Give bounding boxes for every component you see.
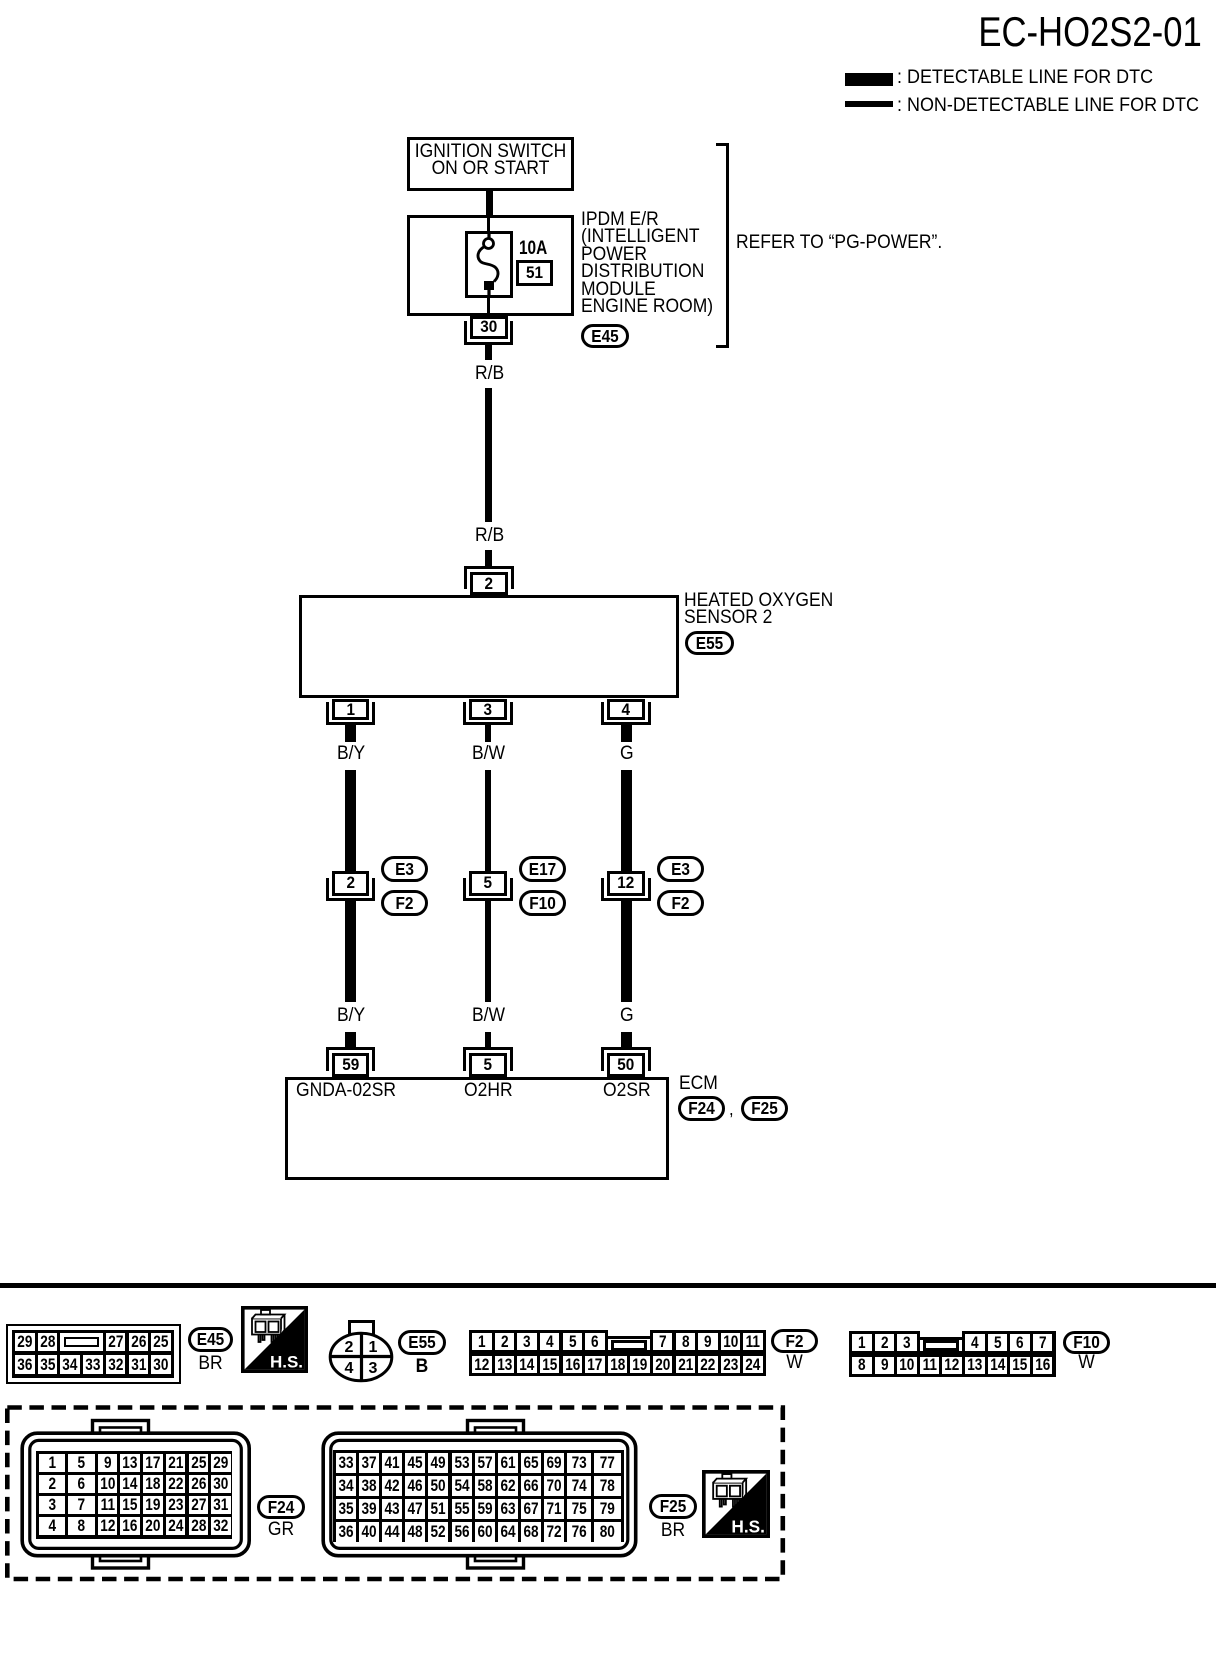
wire stub above pin 2 <box>485 550 492 567</box>
inline connector pin 12 box <box>607 871 645 896</box>
F2 cavity 2 <box>495 1333 515 1350</box>
connector oval F25 (bottom) <box>649 1494 697 1519</box>
F24 cavity 16 <box>120 1517 140 1535</box>
F25 cavity 72 <box>544 1522 564 1542</box>
F10 cavity 6 <box>1010 1334 1030 1351</box>
ECM pin 59 bracket <box>326 1047 376 1071</box>
F24 cavity 2 <box>39 1475 66 1493</box>
F25 cavity 67 <box>521 1499 541 1519</box>
connector F24 housing <box>18 1417 254 1573</box>
F10 key section <box>920 1330 962 1351</box>
E45 cavity 26 <box>129 1333 149 1352</box>
E45 cavity 30 <box>151 1355 171 1375</box>
wire stub below pin 3 <box>485 725 492 742</box>
F24 cavity 14 <box>120 1475 140 1493</box>
connector F10 face <box>849 1331 1056 1377</box>
F25 cavity 79 <box>594 1499 621 1519</box>
F25 cavity 44 <box>382 1522 402 1542</box>
F25 cavity 54 <box>452 1476 472 1496</box>
F25 cavity 41 <box>382 1453 402 1473</box>
E45 cavity 25 <box>151 1333 171 1352</box>
label heated oxygen sensor 2 <box>684 593 833 627</box>
F2 cavity 21 <box>676 1356 696 1373</box>
connector oval E55 (bottom) <box>398 1330 446 1355</box>
E45 cavity 31 <box>129 1355 149 1375</box>
connector oval E3 <box>657 856 704 882</box>
pin 1 box sensor <box>332 699 370 721</box>
fuse 10A box <box>465 231 513 298</box>
connector F25 housing <box>319 1417 643 1573</box>
F25 cavity 53 <box>452 1453 472 1473</box>
F24 cavity 5 <box>68 1454 95 1472</box>
wire column 5 lower <box>485 901 492 1002</box>
separator line <box>0 1283 1216 1288</box>
F25 cavity 39 <box>359 1499 379 1519</box>
pin 3 bracket <box>463 702 513 725</box>
F25 cavity 59 <box>475 1499 495 1519</box>
F25 cavity 68 <box>521 1522 541 1542</box>
ECM terminal name O2SR <box>603 1081 651 1102</box>
wire stub below pin 30 <box>485 345 492 360</box>
label W (F10) <box>1064 1353 1107 1374</box>
F25 cavity 42 <box>382 1476 402 1496</box>
connector oval E45 (bottom) <box>188 1327 233 1352</box>
F24 cavity 12 <box>98 1517 118 1535</box>
wire column 2 lower <box>345 901 356 1002</box>
F25 cavity 35 <box>336 1499 356 1519</box>
ECM pin 50 bracket <box>601 1047 651 1071</box>
F25 cavity 80 <box>594 1522 621 1542</box>
connector oval F10 <box>519 890 566 916</box>
F25 cavity 64 <box>498 1522 518 1542</box>
connector oval F24 (ECM) <box>678 1096 725 1121</box>
F25 cavity 71 <box>544 1499 564 1519</box>
connector oval F2 <box>657 890 704 916</box>
connector E55 face (round) <box>328 1318 394 1383</box>
svg-text:3: 3 <box>369 1360 378 1377</box>
F25 cavity 77 <box>594 1453 621 1473</box>
wire label B/Y <box>337 744 365 765</box>
svg-text:1: 1 <box>369 1339 378 1356</box>
F24 cavity 25 <box>189 1454 209 1472</box>
F10 cavity 14 <box>988 1357 1008 1374</box>
F25 cavity 52 <box>428 1522 448 1542</box>
connector oval E17 <box>519 856 566 882</box>
F2 cavity 10 <box>721 1333 741 1350</box>
F25 cavity 66 <box>521 1476 541 1496</box>
wire stub below pin 1 <box>345 725 356 742</box>
E45 key cavity <box>60 1333 102 1352</box>
F25 cavity 56 <box>452 1522 472 1542</box>
E45 cavity 33 <box>83 1355 103 1375</box>
legend detectable text <box>897 68 1153 89</box>
ignition switch box <box>407 137 574 191</box>
F10 cavity 9 <box>875 1357 895 1374</box>
fuse number 51 box <box>516 260 553 286</box>
F24 cavity 3 <box>39 1496 66 1514</box>
pin 2 bracket <box>464 566 514 589</box>
F25 cavity 50 <box>428 1476 448 1496</box>
wire stub above ECM pin 5 <box>485 1032 492 1048</box>
label REFER TO PG-POWER <box>736 233 942 254</box>
F2 cavity 17 <box>585 1356 605 1373</box>
F24 cavity 15 <box>120 1496 140 1514</box>
F2 cavity 4 <box>540 1333 560 1350</box>
inline connector pin 5 bracket <box>463 878 513 902</box>
pin 30 bracket <box>464 321 514 345</box>
F2 cavity 16 <box>563 1356 583 1373</box>
F25 cavity 74 <box>567 1476 591 1496</box>
wire stub below pin 4 <box>621 725 632 742</box>
F25 cavity 43 <box>382 1499 402 1519</box>
F10 cavity 5 <box>988 1334 1008 1351</box>
E45 cavity 29 <box>15 1333 35 1352</box>
F25 cavity 78 <box>594 1476 621 1496</box>
wire label G <box>620 744 634 765</box>
inline connector pin 12 bracket <box>601 878 651 902</box>
F25 cavity 60 <box>475 1522 495 1542</box>
F24 cavity 4 <box>39 1517 66 1535</box>
label BR (F25) <box>650 1521 694 1542</box>
pin 4 bracket <box>601 702 651 725</box>
F25 cavity 70 <box>544 1476 564 1496</box>
F10 cavity 2 <box>875 1334 895 1351</box>
F25 cavity 37 <box>359 1453 379 1473</box>
F25 cavity 46 <box>405 1476 425 1496</box>
F25 cavity 51 <box>428 1499 448 1519</box>
wire R/B long <box>485 388 492 522</box>
F2 cavity 24 <box>743 1356 763 1373</box>
wire label B/W lower <box>472 1006 505 1027</box>
F10 cavity 4 <box>965 1334 985 1351</box>
F10 cavity 10 <box>897 1357 917 1374</box>
ECM box <box>285 1077 669 1181</box>
label W <box>773 1353 816 1374</box>
IPDM E/R box E45 <box>407 215 574 316</box>
F24 cavity 30 <box>211 1475 231 1493</box>
pin 4 box sensor <box>607 699 645 721</box>
connector F2 face <box>469 1330 766 1376</box>
label ECM <box>679 1074 718 1095</box>
inline connector pin 5 box <box>469 871 507 896</box>
fuse rating 10A <box>519 239 547 260</box>
inline connector pin 2 bracket <box>326 878 376 902</box>
F24 cavity 8 <box>68 1517 95 1535</box>
wire stub above ECM pin 50 <box>621 1032 632 1048</box>
F24 cavity 32 <box>211 1517 231 1535</box>
wire label B/Y lower <box>337 1006 365 1027</box>
F2 key section <box>608 1329 650 1350</box>
svg-text:4: 4 <box>345 1360 354 1377</box>
wire stub above ECM pin 59 <box>345 1032 356 1048</box>
F25 cavity 55 <box>452 1499 472 1519</box>
wire inside IPDM to fuse <box>487 217 490 233</box>
ECM terminal name GNDA-02SR <box>296 1081 396 1102</box>
connector oval E45 (IPDM) <box>581 324 629 348</box>
F10 cavity 12 <box>942 1357 962 1374</box>
wire label R/B lower <box>475 526 504 547</box>
svg-text:H.S.: H.S. <box>270 1353 303 1372</box>
F25 cavity 38 <box>359 1476 379 1496</box>
wire label B/W <box>472 744 505 765</box>
E45 cavity 32 <box>106 1355 126 1375</box>
dashed detail box <box>0 1400 792 1588</box>
F2 cavity 20 <box>653 1356 673 1373</box>
F2 cavity 18 <box>608 1356 628 1373</box>
F10 cavity 3 <box>897 1334 917 1351</box>
E45 cavity 36 <box>15 1355 35 1375</box>
F2 cavity 1 <box>472 1333 492 1350</box>
ECM pin 5 box <box>469 1053 507 1077</box>
F24 cavity 21 <box>166 1454 186 1472</box>
right bracket <box>716 143 729 348</box>
wire column 12 lower <box>621 901 632 1002</box>
F24 cavity 20 <box>143 1517 163 1535</box>
F2 cavity 14 <box>517 1356 537 1373</box>
F2 cavity 8 <box>676 1333 696 1350</box>
F10 cavity 11 <box>920 1357 940 1374</box>
F25 cavity 47 <box>405 1499 425 1519</box>
F24 cavity 13 <box>120 1454 140 1472</box>
F24 cavity 29 <box>211 1454 231 1472</box>
F24 cavity 10 <box>98 1475 118 1493</box>
F2 cavity 3 <box>517 1333 537 1350</box>
F24 cavity 24 <box>166 1517 186 1535</box>
fuse element <box>468 234 510 295</box>
pin 3 box sensor <box>469 699 507 721</box>
wire column 4 upper <box>621 770 632 872</box>
F24 cavity 31 <box>211 1496 231 1514</box>
F2 cavity 7 <box>653 1333 673 1350</box>
legend non-detectable line sample <box>845 101 893 107</box>
label B <box>400 1357 444 1378</box>
F24 cavity 28 <box>189 1517 209 1535</box>
F24 cavity 11 <box>98 1496 118 1514</box>
F25 cavity 63 <box>498 1499 518 1519</box>
inline connector pin 2 box <box>332 871 370 896</box>
F25 cavity 69 <box>544 1453 564 1473</box>
comma between F24 F25 <box>729 1099 734 1120</box>
F10 cavity 7 <box>1033 1334 1053 1351</box>
F25 cavity 65 <box>521 1453 541 1473</box>
F10 cavity 1 <box>852 1334 872 1351</box>
H.S. view icon (F24/F25) <box>702 1470 770 1538</box>
connector E45 face <box>6 1324 181 1384</box>
F2 cavity 13 <box>495 1356 515 1373</box>
ECM pin 59 box <box>332 1053 370 1077</box>
F2 cavity 9 <box>698 1333 718 1350</box>
F25 cavity 48 <box>405 1522 425 1542</box>
F24 cavity 7 <box>68 1496 95 1514</box>
wire column 1 upper <box>345 770 356 872</box>
F10 cavity 13 <box>965 1357 985 1374</box>
connector oval F2 (bottom) <box>771 1329 818 1353</box>
F24 cavity 26 <box>189 1475 209 1493</box>
F25 cavity 76 <box>567 1522 591 1542</box>
F25 cavity 45 <box>405 1453 425 1473</box>
E45 cavity 34 <box>60 1355 80 1375</box>
pin 30 box <box>470 316 508 339</box>
F25 cavity 61 <box>498 1453 518 1473</box>
F25 cavity 40 <box>359 1522 379 1542</box>
E45 cavity 35 <box>38 1355 58 1375</box>
wire column 3 upper <box>485 770 492 872</box>
wire fuse to IPDM bottom <box>487 298 490 315</box>
F25 cavity 57 <box>475 1453 495 1473</box>
heated oxygen sensor 2 box <box>299 595 679 698</box>
F25 cavity 58 <box>475 1476 495 1496</box>
F24 cavity 22 <box>166 1475 186 1493</box>
connector oval E3 <box>381 856 428 882</box>
title EC-HO2S2-01 <box>979 9 1202 54</box>
connector oval E55 <box>685 631 734 655</box>
F25 cavity 73 <box>567 1453 591 1473</box>
F24 pin grid <box>36 1451 233 1539</box>
F25 cavity 75 <box>567 1499 591 1519</box>
ECM pin 5 bracket <box>463 1047 513 1071</box>
label IPDM E/R <box>581 211 713 317</box>
F24 cavity 1 <box>39 1454 66 1472</box>
F10 cavity 8 <box>852 1357 872 1374</box>
F24 cavity 17 <box>143 1454 163 1472</box>
wire R/B ignition to IPDM <box>486 191 493 215</box>
F25 cavity 49 <box>428 1453 448 1473</box>
F2 cavity 22 <box>698 1356 718 1373</box>
F2 cavity 11 <box>743 1333 763 1350</box>
F10 cavity 16 <box>1033 1357 1053 1374</box>
F25 cavity 33 <box>336 1453 356 1473</box>
pin 1 bracket <box>326 702 376 725</box>
F24 cavity 18 <box>143 1475 163 1493</box>
legend detectable line sample <box>845 73 893 86</box>
E45 cavity 28 <box>38 1333 58 1352</box>
ECM terminal name O2HR <box>464 1081 513 1102</box>
F25 pin grid <box>333 1450 624 1542</box>
H.S. view icon (E45/E55) <box>241 1306 308 1373</box>
F2 cavity 23 <box>721 1356 741 1373</box>
F25 cavity 36 <box>336 1522 356 1542</box>
legend non-detectable text <box>897 96 1199 117</box>
svg-text:2: 2 <box>345 1339 354 1356</box>
F10 cavity 15 <box>1010 1357 1030 1374</box>
F2 cavity 5 <box>563 1333 583 1350</box>
F24 cavity 6 <box>68 1475 95 1493</box>
F25 cavity 34 <box>336 1476 356 1496</box>
F24 cavity 19 <box>143 1496 163 1514</box>
connector oval F24 (bottom) <box>257 1495 305 1519</box>
svg-text:H.S.: H.S. <box>731 1516 765 1536</box>
wire label R/B <box>475 364 504 385</box>
F2 cavity 19 <box>630 1356 650 1373</box>
label BR <box>189 1354 230 1375</box>
F24 cavity 27 <box>189 1496 209 1514</box>
E45 cavity 27 <box>106 1333 126 1352</box>
connector oval F25 (ECM) <box>741 1096 788 1121</box>
F24 cavity 9 <box>98 1454 118 1472</box>
F2 cavity 15 <box>540 1356 560 1373</box>
connector oval F2 <box>381 890 428 916</box>
F24 cavity 23 <box>166 1496 186 1514</box>
F2 cavity 6 <box>585 1333 605 1350</box>
ECM pin 50 box <box>607 1053 645 1077</box>
label GR <box>258 1520 302 1541</box>
connector oval F10 (bottom) <box>1063 1331 1110 1355</box>
F2 cavity 12 <box>472 1356 492 1373</box>
wire label G lower <box>620 1006 634 1027</box>
pin 2 box <box>470 572 508 596</box>
F25 cavity 62 <box>498 1476 518 1496</box>
